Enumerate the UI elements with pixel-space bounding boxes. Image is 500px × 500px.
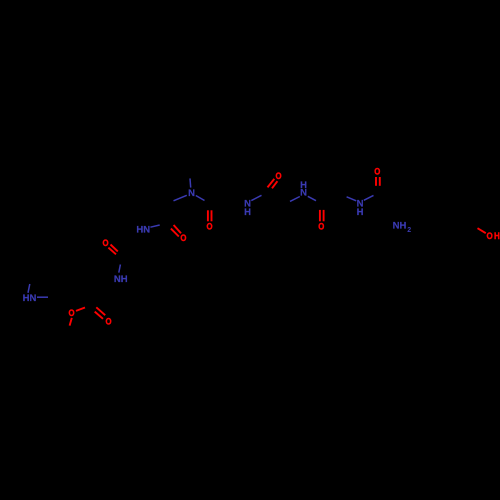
svg-text:2: 2 bbox=[407, 227, 411, 234]
svg-text:HN: HN bbox=[23, 293, 37, 304]
svg-text:O: O bbox=[318, 221, 324, 232]
bond: N1-methyl half-bond (vertical) bbox=[189, 178, 192, 187]
svg-text:H: H bbox=[494, 230, 500, 241]
svg-text:O: O bbox=[105, 316, 111, 327]
bond: N8 to carbonyl-C half-bond (up-right) bbox=[150, 225, 159, 227]
bond: N4 to carbonyl-C half-bond (up-right) bbox=[364, 195, 374, 200]
svg-text:N: N bbox=[188, 188, 195, 199]
svg-text:NH: NH bbox=[393, 221, 407, 232]
bond: N7 to carbonyl-C half-bond (up) bbox=[119, 265, 121, 273]
wire: backbone carbon-carbon bonds bbox=[378, 194, 397, 205]
wire: tryptophan alpha carbon bonds bbox=[95, 284, 118, 304]
bond: ester O to methyl half-bond (down) bbox=[70, 318, 72, 326]
svg-text:H: H bbox=[244, 207, 251, 218]
svg-text:O: O bbox=[180, 232, 186, 243]
bond: C=O double bond O3 (vertical pair) bbox=[319, 210, 321, 221]
svg-text:O: O bbox=[206, 221, 212, 232]
bond: ester C=O double bond O8 (diagonal pair down-right) bbox=[96, 307, 105, 315]
svg-text:O: O bbox=[275, 170, 281, 181]
svg-text:O: O bbox=[374, 166, 380, 177]
wire: tyrosine benzyl CH2 bonds bbox=[397, 194, 434, 205]
bond: indole N-H to C7a half-bond (right) bbox=[37, 296, 48, 298]
bond: N1 to carbonyl-C half-bond (down-right) bbox=[196, 196, 205, 201]
bond: N3 to CH2 half-bond (down-left) bbox=[290, 197, 300, 202]
bond: N3 to carbonyl-C half-bond (down-right) bbox=[308, 196, 316, 200]
svg-text:NH: NH bbox=[114, 274, 128, 285]
bond: phenol C-OH half-bond (down-right) bbox=[478, 228, 486, 233]
bond: ester O to carbonyl-C half-bond (up-right) bbox=[76, 308, 85, 311]
svg-text:H: H bbox=[357, 207, 364, 218]
bond: C=O double bond O2 (diagonal pair up-right) bbox=[268, 179, 275, 188]
svg-text:O: O bbox=[102, 237, 108, 248]
svg-text:N: N bbox=[300, 187, 307, 198]
bond: C=O double bond O1 (vertical pair) bbox=[207, 210, 209, 221]
bond: indole N-H to C2 half-bond (up) bbox=[28, 284, 30, 293]
wire: tyrosine phenyl ring (black on black) bbox=[431, 192, 470, 237]
svg-text:O: O bbox=[68, 307, 74, 318]
bond: C=O double bond O5 (diagonal pair down-right) bbox=[174, 225, 181, 233]
bond: N1 to alpha-C half-bond (down-left) bbox=[174, 195, 187, 201]
bond: N4 to CH2 half-bond (up-left) bbox=[347, 197, 357, 201]
wire: indole ring (black on black) bbox=[31, 270, 57, 298]
bond: N2 to carbonyl-C half-bond (up-right) bbox=[251, 195, 261, 200]
svg-text:HN: HN bbox=[136, 224, 150, 235]
bond: C=O double bond O4 (vertical pair, tyrosine) bbox=[375, 177, 377, 186]
bond: C=O double bond O6 (diagonal pair down-right) bbox=[111, 245, 118, 252]
svg-text:O: O bbox=[486, 230, 492, 241]
